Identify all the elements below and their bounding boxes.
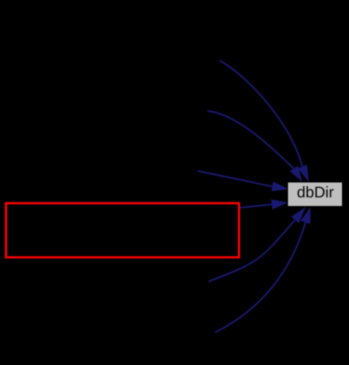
svg-text:dbDir: dbDir [297, 184, 334, 201]
arrowhead edge5 [291, 207, 306, 223]
arrowhead edge1 [298, 165, 309, 182]
wire edge2 curve from left node to dbDir top-left [208, 111, 294, 168]
arrowhead edge2 [290, 166, 303, 182]
wire edge4 from red node to dbDir left edge [240, 204, 272, 207]
wire edge5 curve from bottom-left node to dbDir bottom [209, 220, 296, 282]
arrowhead edge6 [301, 207, 311, 224]
wire edge6 curve from bottom node to dbDir bottom [215, 223, 306, 333]
wire edge3 straight from left node to dbDir left edge [198, 171, 272, 186]
arrowhead edge3 [271, 182, 288, 192]
node dbDir [288, 182, 343, 207]
arrowhead edge4 [271, 199, 288, 209]
wire edge1 curve from top-left node to dbDir top [220, 61, 303, 167]
node red box (current directory, label invisible on black) [6, 203, 239, 257]
